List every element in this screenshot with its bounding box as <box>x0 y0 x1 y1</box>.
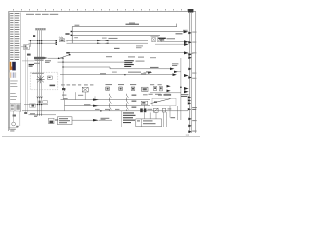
feeder lines to right section <box>67 40 149 42</box>
riser small text r1 <box>183 29 188 32</box>
mark below terminal line <box>34 116 37 117</box>
small colour legend bars <box>10 72 16 77</box>
switch end dot <box>69 54 71 55</box>
vertical wires into B2 zone <box>163 106 170 127</box>
phase tap dots column <box>56 40 57 45</box>
wire pair right <box>176 106 178 120</box>
phase wire L1 <box>37 30 39 115</box>
wire from stamp area down <box>13 111 15 122</box>
terminal boxes on wires <box>39 101 48 104</box>
contact column B row2 <box>127 100 129 106</box>
horizontal feeder bus B <box>29 42 57 44</box>
riser chevron r1 <box>188 32 192 35</box>
P2 end connector <box>170 68 174 71</box>
inline arrow pair on feeder B <box>97 43 109 44</box>
riser top label <box>188 9 193 12</box>
breaker Q1 box <box>60 39 65 42</box>
motor label M3~ <box>50 85 56 87</box>
control line C3 <box>22 110 188 112</box>
label right of table <box>136 61 145 62</box>
small mark on left wire <box>27 54 31 56</box>
contactor K2 contacts <box>158 38 162 42</box>
svg-text:4x6q: 4x6q <box>59 37 63 39</box>
switch pivot dot <box>58 58 60 60</box>
junction dot on drop wire <box>180 87 181 88</box>
inline device mark <box>13 115 16 117</box>
wire gauge text <box>114 48 120 49</box>
cable list table: inner separator <box>13 13 15 61</box>
selector lever <box>151 99 171 104</box>
contactor K1 contacts <box>152 38 156 42</box>
label on N1 right <box>126 23 140 25</box>
long line P2 <box>110 68 172 70</box>
P3 end connector <box>173 73 177 76</box>
tiny text right of cluster <box>168 108 172 109</box>
ticks on terminal line <box>38 114 42 116</box>
connector at N2 end <box>184 30 189 33</box>
stamp box A <box>10 103 15 111</box>
jog between P1 P2 <box>109 67 111 69</box>
terminal mark bottom of left wires <box>24 112 27 114</box>
current transformer block T1 <box>34 57 48 61</box>
riser chevrons mid cluster <box>188 96 191 110</box>
inline arrow pair on feeder A <box>97 40 109 41</box>
border frame <box>9 12 197 134</box>
bus line N2 <box>72 31 183 33</box>
junction dot M3 <box>62 62 63 63</box>
device box k4 <box>142 87 148 91</box>
label on P3 right <box>141 73 146 74</box>
relay cross-reference table <box>124 60 134 67</box>
mark beside meter <box>16 126 18 127</box>
motor enclosure dashed box <box>30 72 58 90</box>
riser text bottom b <box>192 130 196 133</box>
text block right of selector <box>181 94 188 97</box>
selector box S1 <box>152 98 176 106</box>
cable note rows <box>136 45 156 58</box>
riser chevron r5 <box>188 68 192 71</box>
lower legend text rows <box>10 81 18 100</box>
logo colour accent <box>11 67 12 70</box>
grid ticks on frame <box>17 10 185 13</box>
contact column A row3 <box>110 106 112 111</box>
auxiliary device X1 <box>24 45 30 50</box>
wire from B1 <box>72 119 93 121</box>
overload relay box <box>48 76 53 79</box>
aux device box a2 <box>82 87 88 92</box>
cable list table: right border <box>20 13 22 113</box>
bottom link line <box>24 104 48 106</box>
aux device pair s2 <box>159 87 162 91</box>
label on C1 <box>63 98 68 99</box>
stub side label <box>74 37 78 38</box>
stub wire <box>74 92 76 99</box>
arrow on C2 <box>93 105 99 107</box>
riser chevron r6 <box>188 76 192 79</box>
label above c1 <box>167 38 176 39</box>
riser connector chevron c1 <box>184 40 189 43</box>
wedge connector w1 <box>148 71 152 73</box>
bottom-left tick line <box>9 127 19 129</box>
riser chevron r2 <box>188 41 192 44</box>
cable riser trunk <box>190 13 192 133</box>
riser connector chevron c2 <box>184 51 189 54</box>
device on N3 end <box>158 38 166 41</box>
right marks row2 <box>132 101 137 102</box>
bottom terminal line <box>29 114 57 116</box>
junction dots on feeder buses <box>30 40 42 44</box>
text above relay table <box>106 56 144 57</box>
logo colour block orange <box>10 62 12 70</box>
stub wire b <box>62 93 64 100</box>
riser chevron r4 <box>188 56 192 59</box>
riser text labels <box>192 107 197 110</box>
labels along P3 <box>112 71 151 72</box>
feeder drop wire right <box>180 58 182 120</box>
riser small text r6 <box>192 77 196 80</box>
text in B1 <box>59 118 70 123</box>
aux contact a1 <box>62 87 65 93</box>
wire label -W1 <box>33 35 35 37</box>
coil symbol k2 <box>119 87 123 90</box>
right marks row3 <box>132 107 137 108</box>
divider in B2 <box>141 119 143 127</box>
aux device pair s1 <box>153 87 156 91</box>
labels above C3 <box>95 109 119 110</box>
device D1 dark box <box>49 118 54 124</box>
contact column A row2 <box>110 100 112 106</box>
control line C2 <box>65 105 151 107</box>
mid control line M1 <box>67 52 185 54</box>
cluster drop wires <box>145 105 157 119</box>
riser small text r3 <box>192 51 196 54</box>
stub to drop wire <box>178 71 181 73</box>
contact column B row3 <box>127 106 129 111</box>
riser chevron r8 <box>188 125 192 128</box>
junction dots bottom <box>37 104 42 105</box>
riser text bottom a <box>192 119 196 122</box>
mid control line M2 <box>48 57 63 59</box>
end tick of N1 <box>176 24 178 27</box>
control drop wire <box>62 58 64 86</box>
riser connector chevron c1b <box>184 43 189 46</box>
control line C1 <box>61 99 151 101</box>
junction dot on P3 <box>124 74 125 75</box>
text in B2 <box>137 120 156 124</box>
riser small text r2 <box>192 32 196 43</box>
label on N1 left <box>75 25 80 26</box>
stub wire c <box>84 92 86 100</box>
label under terminal line <box>30 113 35 114</box>
page bottom edge line <box>2 136 200 138</box>
control row labels <box>61 84 162 85</box>
label -W1 block <box>29 64 34 67</box>
short link <box>22 60 34 62</box>
stub vertical <box>64 100 66 111</box>
riser chevron c3 <box>184 74 189 77</box>
arrow connector on wire <box>93 119 99 121</box>
marks right of D1 <box>55 119 58 120</box>
bus stub label <box>65 33 69 35</box>
long line P1 <box>63 66 110 68</box>
bus line N1 <box>72 26 177 28</box>
riser cross tick <box>188 53 194 55</box>
meter circle M1 <box>12 122 16 126</box>
label above wire <box>101 118 110 120</box>
coil symbol k3 <box>131 87 135 90</box>
riser text r5 <box>192 72 196 75</box>
box B1 <box>57 117 72 125</box>
label under switch <box>45 60 51 63</box>
label on P3 left <box>100 73 106 74</box>
stamp box B <box>16 103 21 111</box>
right marks row1 <box>132 94 172 96</box>
left riser wires <box>24 50 26 113</box>
column grid tick numbers along top <box>13 9 182 10</box>
enclosure title <box>32 73 44 74</box>
feeder label <box>102 38 107 39</box>
bottom-left note text <box>10 129 16 132</box>
label near riser bottom <box>171 117 176 118</box>
label under N2 end <box>176 33 183 34</box>
tap wire <box>29 41 32 47</box>
junction dot M2 end <box>62 58 63 59</box>
short line row1 <box>150 92 181 94</box>
drawing number label top-right <box>188 9 194 12</box>
junction box on left wires <box>30 104 35 108</box>
riser chevron r7 <box>188 118 192 121</box>
label on P2 <box>150 67 159 68</box>
riser chevron c4 <box>184 87 189 90</box>
label at M1 left end <box>66 52 70 54</box>
label rows near drop wire <box>172 63 178 66</box>
wedge connector mid <box>174 71 178 73</box>
label row3 extras <box>149 94 171 95</box>
sheet title text <box>26 14 58 15</box>
label above P3 mid <box>128 72 141 73</box>
parallel wire right <box>19 111 21 126</box>
wire contactor to riser <box>161 41 184 43</box>
svg-text:1/2: 1/2 <box>186 133 190 137</box>
label row3 <box>143 94 148 95</box>
box B2 <box>136 119 162 127</box>
junction dot P1 <box>62 66 63 67</box>
selector inner mark <box>154 101 157 103</box>
contact column A row1 <box>110 94 112 100</box>
cable duct hatched block W0 <box>35 28 46 30</box>
riser chevron r9 <box>188 130 192 133</box>
riser chevron c5 <box>184 90 189 93</box>
stub wire d <box>94 96 96 99</box>
bus terminal dots <box>71 31 72 36</box>
labels row1 left <box>62 95 83 96</box>
contact column B row1 <box>127 94 129 100</box>
connector marks right of row <box>167 85 171 92</box>
wire to device X1 <box>21 46 24 48</box>
bus line N3 <box>72 35 160 37</box>
label on C2 <box>84 104 90 105</box>
coil symbol k1 <box>106 87 110 90</box>
label mid N3 <box>109 38 118 39</box>
wire after arrow <box>99 119 112 121</box>
phase wire L2 <box>39 30 41 115</box>
horizontal feeder bus A <box>29 40 57 42</box>
long line P3 <box>60 74 173 76</box>
phase wire L3 <box>41 30 43 115</box>
wire contactor to riser b <box>155 43 184 45</box>
riser chevron r3 <box>188 53 192 56</box>
switch lever on M2 <box>59 54 71 58</box>
logo colour block navy <box>12 62 16 71</box>
stub for w1 <box>144 71 149 73</box>
label TB1 <box>148 109 153 110</box>
cable list rows <box>10 13 19 60</box>
note table rows <box>123 112 136 123</box>
terminal cluster TB1 <box>140 108 166 112</box>
junction dot on C3 <box>100 110 101 111</box>
label T1 <box>34 63 40 64</box>
motor starburst symbol <box>36 75 44 83</box>
phase wire chevrons <box>37 97 43 99</box>
arrow on C1 <box>93 99 99 101</box>
label above contactors <box>151 36 159 37</box>
main bus vertical stub <box>71 27 73 44</box>
mid control line M3 <box>58 61 125 63</box>
note table divider <box>121 111 123 127</box>
selector aux box <box>141 101 148 104</box>
